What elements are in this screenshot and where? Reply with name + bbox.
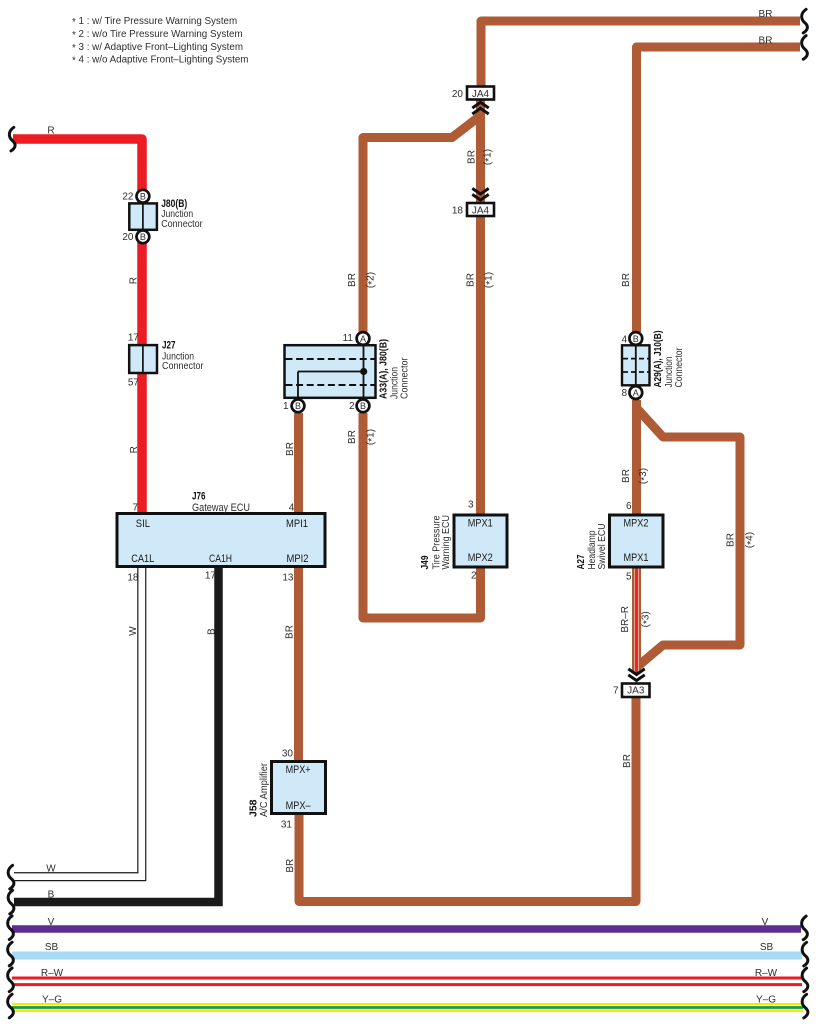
svg-text:BR: BR (759, 36, 773, 47)
svg-text:A29(A), J10(B): A29(A), J10(B) (653, 331, 664, 388)
svg-text:BR: BR (759, 9, 773, 20)
svg-text:20: 20 (122, 232, 134, 243)
svg-text:J49: J49 (420, 555, 431, 569)
svg-text:20: 20 (452, 89, 464, 100)
svg-text:JA3: JA3 (627, 686, 645, 697)
svg-text:Gateway ECU: Gateway ECU (192, 502, 250, 514)
svg-text:W: W (128, 626, 139, 636)
svg-text:JA4: JA4 (472, 89, 490, 100)
svg-text:R: R (128, 277, 139, 284)
break right V (802, 916, 808, 940)
svg-text:J76: J76 (192, 491, 206, 503)
break left V (8, 916, 14, 940)
svg-text:A27: A27 (576, 554, 587, 569)
svg-text:BR: BR (347, 273, 358, 287)
svg-text:BR–R: BR–R (620, 606, 631, 633)
svg-text:V: V (762, 917, 769, 928)
legend note (72, 16, 248, 67)
svg-text:MPX2: MPX2 (468, 552, 493, 564)
pin 11 A (357, 332, 370, 345)
bus wire Y-G (12, 1003, 803, 1012)
bus wire R-W (12, 976, 802, 986)
wire BR-R A27 pin5 to JA3 (632, 567, 641, 674)
svg-text:A/C Amplifier: A/C Amplifier (259, 762, 270, 817)
pin 4 B (629, 332, 642, 345)
pin 1 B (292, 399, 305, 412)
svg-text:BR: BR (347, 430, 358, 444)
junction connector A33(A),J80(B) (283, 332, 411, 412)
ECU J76 Gateway (117, 491, 325, 584)
break left R-W (8, 968, 14, 992)
wire W (white) CA1L down-left (14, 566, 142, 877)
svg-text:Connector: Connector (400, 357, 411, 399)
wire BR A33 pin1 to J76 MPI1 (294, 413, 303, 514)
svg-text:Y–G: Y–G (756, 994, 776, 1005)
junction connector A29(A),J10(B) (621, 331, 685, 400)
svg-text:* 2 : w/o Tire Pressure Warnin: * 2 : w/o Tire Pressure Warning System (72, 29, 243, 41)
svg-text:Connector: Connector (162, 360, 204, 372)
wire BR JA4-18 to J49 pin3 (476, 216, 485, 516)
svg-text:J58: J58 (248, 799, 259, 817)
bus wire V (12, 925, 801, 933)
svg-text:SB: SB (45, 942, 59, 953)
svg-text:MPX2: MPX2 (624, 518, 649, 530)
svg-text:13: 13 (282, 572, 294, 583)
svg-text:BR: BR (621, 469, 632, 483)
wire BR (*2) vertical + diagonal into JA4-20 (363, 116, 480, 332)
svg-text:2: 2 (471, 570, 477, 581)
ECU A27 Headlamp Swivel (576, 501, 663, 583)
svg-text:B: B (633, 334, 639, 344)
svg-text:SIL: SIL (136, 518, 150, 530)
svg-text:JA4: JA4 (472, 205, 490, 216)
svg-text:R–W: R–W (755, 968, 778, 979)
wire BR A29 pin8 to A27 pin6 (632, 400, 641, 515)
svg-text:BR: BR (621, 273, 632, 287)
svg-text:B: B (140, 192, 146, 202)
connector JA3 pin7 (613, 684, 650, 698)
connector JA4 pin18 (452, 203, 494, 216)
wire BR top #1 to JA4-20 (481, 21, 800, 87)
break right SB (802, 942, 808, 966)
svg-text:SB: SB (760, 942, 774, 953)
svg-text:5: 5 (626, 572, 632, 583)
pin 8 A (629, 386, 642, 399)
svg-text:8: 8 (621, 388, 627, 399)
break left W (8, 865, 14, 889)
svg-text:MPX1: MPX1 (468, 518, 493, 530)
svg-text:CA1L: CA1L (131, 553, 154, 565)
svg-text:4: 4 (621, 334, 627, 345)
break right BR2 (802, 36, 808, 60)
svg-text:(*3): (*3) (638, 468, 650, 484)
svg-text:18: 18 (452, 205, 464, 216)
svg-text:11: 11 (343, 333, 354, 344)
svg-text:Swivel ECU: Swivel ECU (597, 524, 608, 570)
break right R-W (802, 968, 808, 992)
svg-text:* 4 : w/o Adaptive Front–Light: * 4 : w/o Adaptive Front–Lighting System (72, 55, 248, 67)
svg-text:A: A (633, 388, 639, 398)
svg-text:1: 1 (283, 401, 289, 412)
svg-text:BR: BR (285, 859, 296, 873)
ECU J58 A/C Amplifier (248, 748, 325, 830)
chevron arrows up into JA4-20 (472, 102, 488, 114)
break right BR1 (802, 9, 808, 33)
junction connector J80(B) (122, 190, 203, 243)
svg-text:R: R (47, 126, 54, 137)
bus wire SB (12, 952, 802, 960)
svg-text:BR: BR (726, 533, 737, 547)
svg-text:7: 7 (132, 502, 138, 513)
ECU J49 Tire Pressure Warning (420, 500, 507, 582)
break left B (8, 890, 14, 914)
break right Y-G (802, 994, 808, 1018)
chevron arrows down into JA4-18 (472, 188, 488, 200)
svg-text:2: 2 (349, 401, 355, 412)
svg-text:R–W: R–W (41, 968, 64, 979)
svg-text:17: 17 (128, 333, 140, 344)
svg-text:57: 57 (128, 378, 140, 389)
svg-text:BR: BR (466, 273, 477, 287)
svg-text:(*1): (*1) (366, 429, 378, 445)
svg-text:Connector: Connector (161, 218, 203, 230)
svg-text:6: 6 (626, 501, 632, 512)
svg-text:BR: BR (466, 150, 477, 164)
node junction dot (360, 368, 367, 375)
wire BR JA4-20 to JA4-18 (476, 99, 485, 204)
wire R horizontal+vertical (left red) (13, 139, 142, 514)
chevron arrows down into JA3 (628, 669, 644, 681)
svg-text:22: 22 (122, 192, 134, 203)
svg-text:CA1H: CA1H (209, 553, 232, 565)
svg-text:B: B (140, 232, 146, 242)
svg-text:(*2): (*2) (366, 272, 378, 288)
svg-text:W: W (46, 864, 56, 875)
svg-text:B: B (48, 890, 55, 901)
svg-text:* 1 : w/ Tire Pressure Warning: * 1 : w/ Tire Pressure Warning System (72, 16, 237, 28)
svg-text:17: 17 (205, 570, 217, 581)
break left R (9, 127, 15, 151)
svg-text:MPI1: MPI1 (286, 518, 308, 530)
svg-text:* 3 : w/ Adaptive Front–Lighti: * 3 : w/ Adaptive Front–Lighting System (72, 42, 243, 54)
svg-text:3: 3 (468, 500, 474, 511)
break left SB (8, 942, 14, 966)
svg-text:7: 7 (613, 686, 619, 697)
svg-text:A33(A), J80(B): A33(A), J80(B) (379, 339, 390, 399)
svg-text:B: B (295, 401, 301, 411)
svg-text:MPX1: MPX1 (624, 552, 649, 564)
svg-text:BR: BR (285, 442, 296, 456)
svg-text:(*1): (*1) (483, 149, 495, 165)
wire BR JA3 down + bottom horizontal to J58 pin31 (299, 697, 636, 902)
pin 2 B (357, 399, 370, 412)
svg-text:Warning ECU: Warning ECU (441, 515, 452, 570)
svg-text:BR: BR (285, 625, 296, 639)
svg-text:MPX+: MPX+ (286, 764, 311, 776)
svg-text:R: R (129, 446, 140, 453)
svg-text:(*1): (*1) (484, 272, 496, 288)
svg-text:4: 4 (289, 502, 295, 513)
svg-text:Y–G: Y–G (42, 995, 62, 1006)
svg-text:B: B (206, 628, 217, 635)
junction connector J27 (128, 333, 204, 389)
wire BR (*1) A33 pin2 loop to J49 pin2 (363, 413, 481, 618)
svg-text:30: 30 (282, 748, 294, 759)
wire BR top #2 to A29 pin4 (637, 47, 801, 332)
svg-text:(*3): (*3) (641, 611, 653, 627)
svg-text:Connector: Connector (674, 347, 685, 388)
svg-text:BR: BR (622, 754, 633, 768)
wire BR (*4) bypass loop (638, 409, 741, 666)
svg-text:B: B (360, 401, 366, 411)
svg-text:MPX–: MPX– (286, 800, 312, 812)
wire B (black) CA1H down-left (14, 566, 219, 902)
svg-text:V: V (48, 917, 55, 928)
svg-text:A: A (360, 334, 366, 344)
svg-text:MPI2: MPI2 (287, 553, 309, 565)
svg-text:18: 18 (127, 572, 139, 583)
wire BR J76 MPI2 to J58 MPX+ (294, 567, 303, 762)
svg-text:(*4): (*4) (745, 532, 757, 548)
connector JA4 pin20 (452, 87, 494, 100)
svg-text:31: 31 (281, 819, 293, 830)
break left Y-G (8, 994, 14, 1018)
